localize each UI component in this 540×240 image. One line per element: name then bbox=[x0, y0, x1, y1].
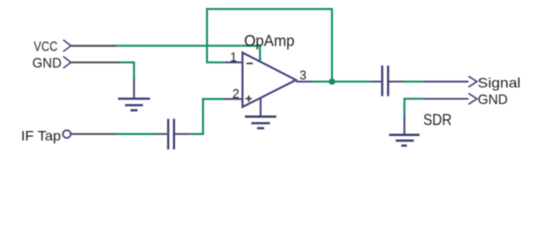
svg-text:Signal: Signal bbox=[478, 75, 521, 91]
svg-text:2: 2 bbox=[232, 87, 239, 101]
svg-text:1: 1 bbox=[230, 50, 237, 64]
connector VCC pin lead bbox=[71, 45, 117, 47]
capacitor C1 left pin bbox=[154, 133, 167, 135]
connector IF Tap pin lead bbox=[71, 133, 116, 135]
op-amp plus sign bbox=[246, 96, 252, 102]
capacitor C2 right pin bbox=[389, 81, 403, 83]
connector GND (right) arrowhead bbox=[469, 93, 478, 104]
svg-text:GND: GND bbox=[478, 91, 508, 107]
connector Signal lead bbox=[422, 81, 468, 83]
ground G3 stem bbox=[403, 115, 405, 135]
svg-text:SDR: SDR bbox=[423, 112, 452, 129]
junction node dot bbox=[329, 78, 335, 84]
op-amp V- stem to ground G2 bbox=[260, 98, 262, 117]
capacitor C2 plates bbox=[382, 66, 388, 97]
svg-text:GND: GND bbox=[32, 55, 61, 71]
op-amp pin 1 stub bbox=[225, 61, 243, 63]
wire IF Tap to C1 bbox=[116, 133, 155, 135]
connector GND chevron bbox=[63, 56, 71, 68]
wire VCC to op-amp V+ bbox=[117, 46, 261, 61]
capacitor C1 right pin bbox=[175, 133, 190, 135]
wire GND to ground symbol bbox=[121, 62, 134, 78]
svg-text:IF Tap: IF Tap bbox=[21, 128, 61, 144]
op-amp U1 triangle bbox=[243, 53, 297, 107]
op-amp minus sign bbox=[246, 62, 252, 64]
svg-text:3: 3 bbox=[300, 69, 307, 83]
ground G3 bars bbox=[389, 135, 419, 146]
svg-text:VCC: VCC bbox=[34, 38, 58, 54]
connector GND (right) lead bbox=[423, 98, 469, 100]
capacitor C2 left pin bbox=[370, 81, 381, 83]
ground G2 bars bbox=[245, 117, 276, 129]
connector IF Tap circle terminal bbox=[63, 130, 71, 138]
wire output to C2 bbox=[313, 81, 370, 83]
wire feedback loop pin1 to output node bbox=[207, 9, 332, 82]
wire C1 to op-amp pin 2 bbox=[190, 99, 224, 134]
svg-text:OpAmp: OpAmp bbox=[244, 33, 294, 50]
wire GND right to ground G3 bbox=[404, 99, 422, 115]
connector Signal arrowhead bbox=[469, 76, 478, 87]
op-amp pin 2 stub bbox=[224, 98, 242, 100]
connector GND pin lead bbox=[71, 61, 121, 63]
ground G1 bars bbox=[118, 99, 150, 111]
op-amp pin 3 output stub bbox=[296, 81, 313, 83]
connector VCC chevron bbox=[63, 40, 71, 52]
ground G1 stem bbox=[133, 79, 135, 99]
wire C2 to Signal connector bbox=[403, 81, 422, 83]
capacitor C1 plates bbox=[168, 119, 174, 150]
